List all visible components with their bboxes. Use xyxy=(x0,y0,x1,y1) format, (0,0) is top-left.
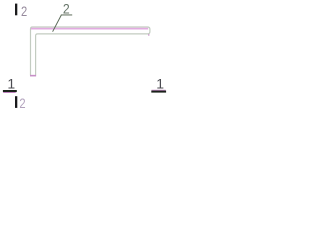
svg-text:1: 1 xyxy=(7,76,15,92)
svg-text:2: 2 xyxy=(21,4,27,19)
svg-text:2: 2 xyxy=(19,96,25,111)
svg-text:2: 2 xyxy=(63,1,70,17)
svg-text:1: 1 xyxy=(156,76,164,92)
